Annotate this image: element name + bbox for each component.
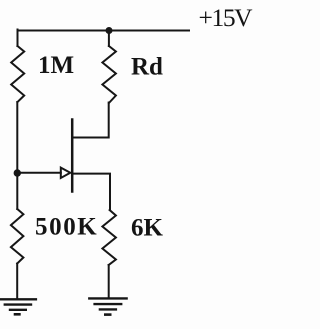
wire left mid (1M to 500K through gate node) (16, 102, 18, 209)
wire Rd top to junction (108, 31, 110, 47)
resistor Rd (102, 46, 116, 103)
node gate junction (14, 169, 21, 176)
wire left drop from rail to 1M (17, 30, 19, 47)
transistor Q1 gate arrow (61, 168, 71, 178)
svg-text:6K: 6K (131, 215, 164, 242)
resistor Rs 6K (102, 210, 116, 265)
svg-text:+15V: +15V (199, 3, 254, 32)
wire gate lead (17, 172, 61, 174)
wire source lead (channel to 6K) (72, 174, 110, 210)
svg-text:500K: 500K (35, 214, 98, 241)
resistor R2 500K (11, 209, 24, 264)
wire +15V top rail (18, 30, 190, 32)
transistor Q1 channel bar (71, 120, 74, 192)
svg-text:Rd: Rd (131, 54, 163, 81)
svg-text:1M: 1M (38, 52, 74, 79)
wire drain lead (channel to Rd) (72, 103, 109, 138)
resistor R1 1M (11, 46, 24, 102)
node top junction (106, 27, 113, 34)
wire 6K to ground (108, 265, 110, 298)
ground left (0, 299, 36, 314)
wire 500K to ground (16, 264, 18, 300)
ground right (89, 298, 126, 314)
